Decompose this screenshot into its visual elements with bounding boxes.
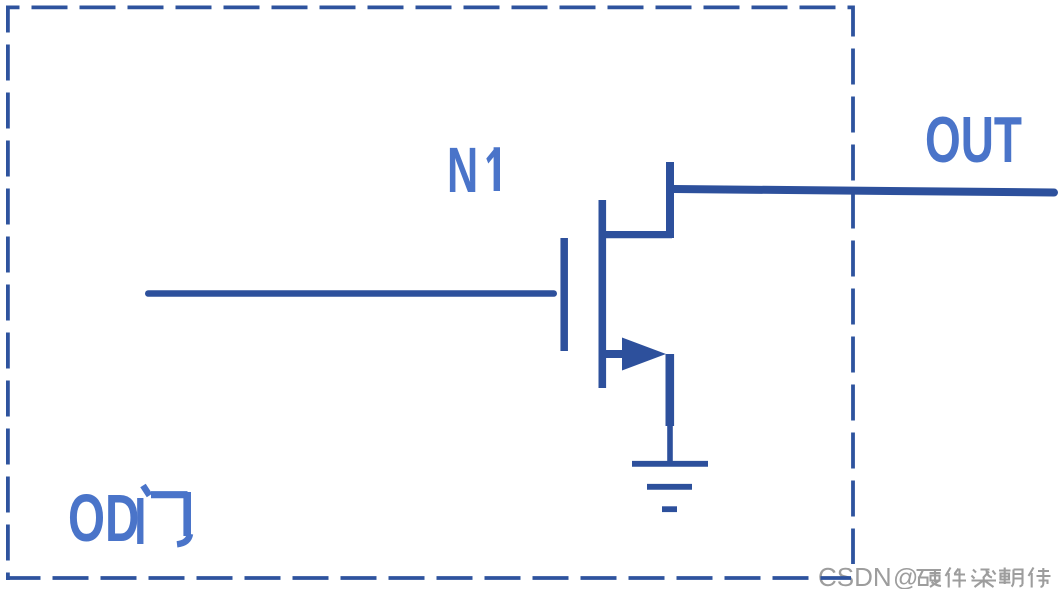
wire: drain stub (666, 162, 674, 238)
ground symbol: bar 3 (662, 506, 677, 512)
watermark glyph 件 (946, 568, 967, 588)
label 门 glyph (hand drawn) (140, 486, 190, 545)
watermark glyph 伟 (1029, 568, 1051, 588)
svg-text:OUT: OUT (925, 103, 1022, 176)
transistor N1: source arrow (622, 338, 666, 371)
svg-text:OD: OD (68, 481, 139, 556)
svg-text:N: N (447, 135, 478, 207)
wire: source lead (665, 354, 674, 426)
dashed enclosure: bottom edge (8, 576, 852, 580)
dashed enclosure: top edge (8, 6, 854, 10)
watermark glyph 梁 (972, 570, 997, 588)
transistor N1: gate bar (560, 238, 568, 351)
transistor N1: channel bar (598, 200, 606, 388)
dashed enclosure: left edge (6, 6, 10, 581)
svg-text:CSDN: CSDN (818, 562, 892, 589)
wire: to ground (667, 420, 673, 463)
watermark glyph 硬 (917, 570, 942, 587)
ground symbol: bar 1 (632, 461, 708, 467)
svg-text:@: @ (893, 564, 918, 589)
watermark glyph 朝 (999, 568, 1023, 587)
ground symbol: bar 2 (647, 484, 692, 490)
wire: gate input (148, 290, 553, 297)
label N1 digit 1 (486, 147, 500, 191)
wire: drain connector (606, 231, 672, 238)
watermark CSDN @硬件梁朝伟 (818, 562, 918, 589)
wire: source connector (606, 350, 628, 358)
dashed enclosure: right edge (851, 6, 855, 565)
wire: OUT output (674, 189, 1054, 193)
